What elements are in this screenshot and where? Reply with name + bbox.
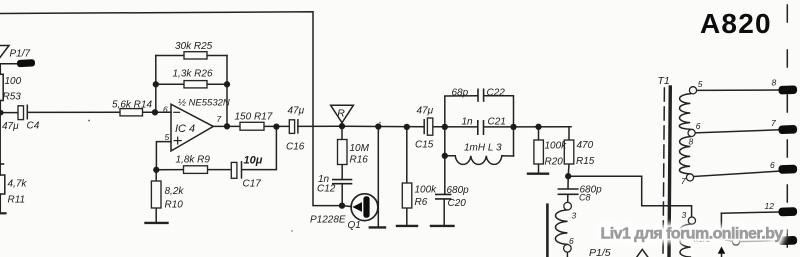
svg-text:R53: R53 — [3, 92, 22, 103]
svg-text:6: 6 — [770, 160, 775, 170]
svg-text:5: 5 — [165, 132, 170, 142]
svg-text:47μ: 47μ — [2, 121, 19, 132]
svg-text:C20: C20 — [448, 198, 467, 209]
svg-text:470: 470 — [577, 140, 594, 151]
svg-text:Liv1 для forum.onliner.by: Liv1 для forum.onliner.by — [601, 226, 784, 243]
svg-text:½ NE5532N: ½ NE5532N — [178, 98, 230, 109]
svg-text:680p: 680p — [447, 185, 470, 196]
svg-text:Q1: Q1 — [348, 220, 361, 231]
svg-text:10M: 10M — [350, 143, 370, 154]
svg-text:6: 6 — [696, 121, 701, 131]
svg-text:5,6k R14: 5,6k R14 — [112, 100, 152, 111]
svg-text:R11: R11 — [8, 195, 26, 206]
svg-text:C17: C17 — [243, 178, 262, 189]
svg-text:3: 3 — [572, 211, 577, 221]
svg-text:1,8k R9: 1,8k R9 — [176, 155, 211, 166]
svg-text:1,3k R26: 1,3k R26 — [173, 69, 213, 80]
svg-text:6: 6 — [569, 236, 574, 246]
svg-text:C21: C21 — [488, 117, 506, 128]
svg-text:100k: 100k — [545, 141, 568, 152]
svg-text:C16: C16 — [286, 142, 305, 153]
svg-text:C4: C4 — [27, 121, 40, 132]
svg-text:8,2k: 8,2k — [165, 186, 185, 197]
svg-text:P1228E: P1228E — [310, 215, 346, 226]
svg-text:IC 4: IC 4 — [175, 123, 195, 135]
svg-text:C8: C8 — [579, 193, 591, 203]
svg-text:C22: C22 — [487, 87, 506, 98]
svg-text:47μ: 47μ — [288, 106, 305, 117]
svg-text:1mH L 3: 1mH L 3 — [464, 143, 502, 154]
svg-text:R16: R16 — [350, 155, 369, 166]
svg-text:30k R25: 30k R25 — [175, 41, 213, 52]
svg-text:1n: 1n — [462, 117, 474, 128]
svg-text:R: R — [337, 108, 345, 120]
svg-text:R15: R15 — [576, 156, 595, 167]
svg-text:7: 7 — [681, 176, 686, 186]
svg-text:6: 6 — [163, 105, 168, 115]
svg-text:T1: T1 — [658, 75, 670, 87]
svg-text:8: 8 — [772, 78, 777, 88]
svg-text:12: 12 — [765, 201, 775, 211]
svg-text:P1/5: P1/5 — [589, 247, 611, 257]
svg-text:4,7k: 4,7k — [8, 179, 28, 190]
svg-text:8: 8 — [689, 137, 694, 147]
svg-text:5: 5 — [698, 79, 703, 89]
svg-text:3: 3 — [682, 210, 687, 220]
svg-text:P1/7: P1/7 — [10, 49, 31, 60]
svg-text:10μ: 10μ — [244, 155, 263, 167]
svg-text:R10: R10 — [165, 200, 184, 211]
svg-text:100k: 100k — [415, 185, 438, 196]
svg-text:A820: A820 — [700, 8, 772, 39]
svg-text:7: 7 — [771, 118, 776, 128]
svg-text:100: 100 — [5, 76, 22, 87]
svg-text:C12: C12 — [317, 184, 336, 195]
svg-text:R20: R20 — [545, 157, 564, 168]
svg-text:C15: C15 — [415, 140, 434, 151]
svg-text:47μ: 47μ — [417, 106, 434, 117]
svg-text:68p: 68p — [452, 87, 469, 98]
svg-text:150 R17: 150 R17 — [235, 112, 273, 123]
svg-text:7: 7 — [217, 114, 222, 124]
svg-text:R6: R6 — [415, 197, 428, 208]
